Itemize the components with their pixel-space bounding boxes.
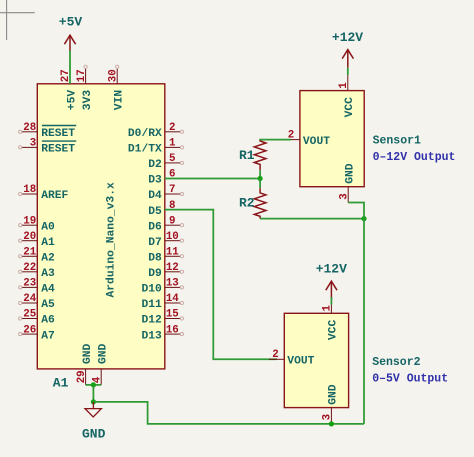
wire node to R2 top	[259, 179, 261, 189]
svg-text:22: 22	[23, 262, 36, 274]
svg-text:D13: D13	[141, 330, 162, 342]
wire R1 bottom to node	[259, 170, 261, 178]
svg-text:3: 3	[30, 138, 36, 150]
svg-text:RESET: RESET	[41, 144, 75, 156]
svg-text:D9: D9	[148, 268, 162, 280]
svg-text:18: 18	[23, 184, 36, 196]
svg-text:13: 13	[166, 278, 179, 290]
svg-text:D11: D11	[141, 299, 162, 311]
svg-text:24: 24	[23, 293, 36, 305]
svg-text:29: 29	[76, 370, 88, 383]
svg-text:3: 3	[322, 414, 334, 420]
pin 7 D4 (right)	[148, 184, 183, 202]
svg-text:A4: A4	[41, 284, 55, 296]
pin 3 GND sensor1	[338, 163, 356, 202]
wire sensor1 gnd to gnd column	[348, 203, 364, 424]
svg-text:VCC: VCC	[344, 97, 356, 118]
svg-text:D0/RX: D0/RX	[128, 128, 162, 140]
svg-text:+5V: +5V	[66, 90, 78, 111]
svg-text:D7: D7	[148, 237, 162, 249]
svg-text:VIN: VIN	[114, 90, 126, 111]
svg-text:GND: GND	[98, 343, 110, 364]
pin 5 D2 (right)	[148, 153, 183, 171]
svg-text:Sensor1: Sensor1	[373, 134, 421, 147]
svg-text:D10: D10	[141, 284, 162, 296]
pin 10 D7 (right)	[148, 231, 183, 249]
pin 24 A5 (left)	[19, 293, 55, 311]
power +5V	[59, 14, 83, 51]
svg-text:GND: GND	[82, 343, 94, 364]
power +12V sensor1	[332, 30, 363, 68]
pin 8 D5 (right)	[148, 200, 180, 218]
svg-text:+12V: +12V	[332, 30, 363, 45]
svg-text:25: 25	[23, 309, 36, 321]
junction R2 / gnd column	[361, 216, 366, 221]
svg-text:16: 16	[166, 324, 179, 336]
svg-text:A1: A1	[41, 237, 55, 249]
resistor R1	[239, 140, 266, 171]
ground symbol	[85, 402, 101, 417]
svg-text:2: 2	[272, 349, 278, 361]
svg-text:12: 12	[166, 262, 179, 274]
svg-text:5: 5	[169, 153, 175, 165]
svg-text:R1: R1	[239, 148, 255, 163]
resistor R2	[239, 188, 266, 218]
wire D5 to Sensor2 VOUT	[165, 210, 277, 360]
svg-text:A2: A2	[41, 253, 55, 265]
svg-text:GND: GND	[328, 384, 340, 405]
sheet border corner marker	[0, 0, 35, 40]
svg-text:17: 17	[76, 69, 88, 82]
svg-text:7: 7	[169, 184, 175, 196]
pin 14 D11 (right)	[141, 293, 183, 311]
junction sensor2 gnd	[329, 421, 334, 426]
svg-text:0–12V Output: 0–12V Output	[373, 151, 456, 164]
svg-text:D2: D2	[148, 159, 162, 171]
pin 12 D9 (right)	[148, 262, 183, 280]
pin 19 A0 (left)	[19, 215, 55, 233]
pin 3 GND sensor2	[322, 384, 340, 424]
svg-text:A6: A6	[41, 315, 55, 327]
svg-text:10: 10	[166, 231, 179, 243]
pin 2 VOUT sensor2	[269, 349, 315, 367]
pin 20 A1 (left)	[19, 231, 55, 249]
pin 27 +5V (top)	[60, 68, 78, 110]
junction gnd node	[91, 399, 96, 404]
svg-text:14: 14	[166, 293, 179, 305]
svg-text:D12: D12	[141, 315, 162, 327]
svg-text:A3: A3	[41, 268, 55, 280]
pin 15 D12 (right)	[141, 309, 183, 327]
arduino U1 Arduino_Nano_v3.x body	[37, 84, 165, 369]
wire +12V to sensor1 vcc	[347, 68, 349, 75]
pin 2 VOUT sensor1	[284, 129, 330, 147]
svg-text:D6: D6	[148, 221, 162, 233]
svg-text:9: 9	[169, 215, 175, 227]
svg-text:VCC: VCC	[328, 320, 340, 341]
svg-text:Sensor2: Sensor2	[372, 356, 420, 369]
svg-text:1: 1	[322, 305, 334, 312]
junction R1/R2/D3	[258, 176, 263, 181]
svg-text:1: 1	[338, 82, 350, 89]
svg-text:0–5V Output: 0–5V Output	[372, 373, 448, 386]
junction pins GND	[91, 382, 96, 387]
svg-text:+5V: +5V	[59, 14, 83, 29]
wire pin29-pin4 join	[86, 384, 102, 386]
wire R2 bottom to sensor1 gnd line	[260, 218, 364, 220]
svg-text:R2: R2	[239, 196, 255, 211]
svg-text:RESET: RESET	[41, 128, 75, 140]
svg-text:15: 15	[166, 309, 179, 321]
pin 21 A2 (left)	[19, 247, 55, 265]
svg-text:D8: D8	[148, 253, 162, 265]
svg-text:30: 30	[107, 69, 119, 82]
svg-text:D1/TX: D1/TX	[128, 144, 162, 156]
pin 2 D0/RX (right)	[128, 122, 184, 140]
svg-text:26: 26	[23, 324, 36, 336]
svg-text:4: 4	[91, 376, 103, 383]
svg-text:AREF: AREF	[41, 190, 68, 202]
svg-text:A0: A0	[41, 221, 55, 233]
svg-text:20: 20	[23, 231, 36, 243]
svg-text:A1: A1	[53, 376, 69, 391]
svg-text:VOUT: VOUT	[287, 356, 314, 368]
svg-text:2: 2	[169, 122, 175, 134]
pin 4 GND (bottom)	[91, 343, 109, 384]
pin 1 VCC sensor2	[322, 298, 340, 340]
pin 1 D1/TX (right)	[128, 138, 184, 156]
pin 23 A4 (left)	[19, 278, 55, 296]
wire +5V to pin 27	[69, 51, 71, 84]
svg-text:3V3: 3V3	[82, 90, 94, 111]
pin 16 D13 (right)	[141, 324, 183, 342]
pin 25 A6 (left)	[19, 309, 55, 327]
svg-text:A5: A5	[41, 299, 55, 311]
svg-text:GND: GND	[345, 163, 357, 184]
pin 30 VIN (top)	[107, 65, 125, 110]
pin 28 RESET (left)	[19, 122, 77, 140]
sensor1 body	[300, 91, 364, 187]
pin 26 A7 (left)	[19, 324, 55, 342]
pin 17 3V3 (top)	[76, 65, 94, 110]
svg-text:1: 1	[169, 138, 176, 150]
wire down to gnd node	[92, 385, 94, 402]
svg-text:19: 19	[23, 215, 36, 227]
svg-text:D3: D3	[148, 175, 162, 187]
pin 11 D8 (right)	[148, 247, 183, 265]
wire +12V to sensor2 vcc	[330, 297, 332, 305]
svg-text:+12V: +12V	[316, 262, 347, 277]
sensor2 body	[284, 313, 348, 407]
power +12V sensor2	[316, 262, 347, 300]
svg-text:11: 11	[166, 247, 179, 259]
svg-text:D5: D5	[148, 206, 162, 218]
svg-text:VOUT: VOUT	[303, 136, 330, 148]
pin 13 D10 (right)	[141, 278, 183, 296]
svg-text:GND: GND	[82, 426, 106, 441]
pin 3 RESET (left)	[19, 138, 77, 156]
pin 18 AREF (left)	[19, 184, 69, 202]
pin 22 A3 (left)	[19, 262, 55, 280]
svg-text:28: 28	[23, 122, 36, 134]
pin 6 D3 (right)	[148, 169, 180, 187]
wire D3 to R1/R2 node	[165, 178, 260, 180]
svg-text:3: 3	[338, 193, 350, 199]
pin 9 D6 (right)	[148, 215, 183, 233]
wire gnd bus to right	[93, 402, 364, 424]
svg-text:Arduino_Nano_v3.x: Arduino_Nano_v3.x	[106, 182, 118, 297]
wire VOUT sensor1 to R1	[260, 139, 291, 141]
svg-text:21: 21	[23, 247, 36, 259]
svg-text:23: 23	[23, 278, 36, 290]
svg-text:A7: A7	[41, 330, 55, 342]
pin 29 GND (bottom)	[76, 343, 94, 384]
pin 1 VCC sensor1	[338, 75, 356, 117]
svg-text:D4: D4	[148, 190, 162, 202]
